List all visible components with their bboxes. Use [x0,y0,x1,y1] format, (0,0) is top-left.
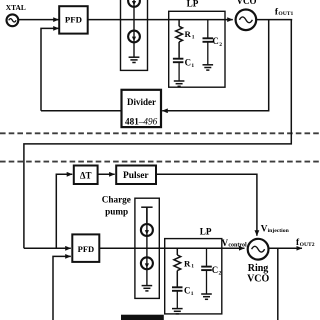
svg-text:2: 2 [219,42,222,48]
svg-text:pump: pump [105,207,128,217]
PFD U1 box [59,6,87,33]
resistor R1 (bottom) [174,248,181,286]
svg-text:ΔT: ΔT [80,170,92,180]
svg-text:1: 1 [191,291,194,297]
svg-text:Divider: Divider [127,97,156,107]
wire feedback tap to divider [162,20,269,111]
wire C2 to ground [207,42,209,65]
wire VCO to fOUT1 [256,19,292,21]
wire PFD output to VCO [88,19,233,21]
svg-text:injection: injection [268,228,290,234]
svg-text:481–496: 481–496 [125,117,158,127]
wire junction up to Delta-T [56,174,72,248]
oscillator VCO [236,9,257,30]
current source I2 [128,31,140,43]
ground (charge pump bottom) [142,286,153,291]
Delta-T box [74,166,98,185]
Divider box [122,90,162,127]
current source I4 [141,257,153,269]
wire C2 to ground (bottom) [206,270,208,294]
wire fOUT2 feedback down [277,248,279,320]
ground (charge pump top) [129,57,140,62]
svg-text:control: control [228,243,247,249]
wire C1 to ground [178,62,180,80]
LP filter box (top) [169,11,225,87]
wire through current sources [133,0,135,57]
svg-text:1: 1 [191,63,194,69]
svg-text:1: 1 [191,264,194,270]
ground (C2 bottom) [201,294,212,299]
PFD U2 box [72,234,99,262]
svg-text:XTAL: XTAL [6,3,26,12]
current source I3 [141,224,153,236]
oscillator XTAL [6,14,18,26]
dashed border top of bottom subfigure [0,161,320,163]
ground (C2 top) [203,65,214,70]
ground (C1 bottom) [172,309,183,314]
svg-text:R: R [185,29,192,39]
svg-text:LP: LP [187,0,199,8]
wire through current sources [146,207,148,285]
svg-text:C: C [185,58,191,68]
wire divider feedback up to PFD [41,28,59,110]
capacitor C1 (bottom) [172,287,183,291]
current source I1 (cropped circle) [128,0,140,7]
wire Delta-T to Pulser [98,173,115,175]
svg-text:VCO: VCO [237,0,257,6]
wire Ring VCO to fOUT2 [269,247,303,249]
LP filter box (bottom) [165,239,222,314]
svg-text:C: C [212,265,218,275]
svg-text:C: C [184,285,190,295]
svg-text:1: 1 [192,34,195,40]
wire C1 to ground (bottom) [176,291,178,308]
svg-text:2: 2 [219,270,222,276]
svg-text:C: C [212,36,218,46]
wire XTAL to PFD [19,19,59,21]
Pulser box [116,166,156,185]
svg-text:OUT2: OUT2 [300,242,315,248]
capacitor C1 (top) [173,59,184,63]
wire fOUT1 down to bottom stage [24,20,291,249]
charge pump box (top, cropped) [121,0,148,70]
capacitor C2 (bottom) [201,267,212,271]
svg-text:VCO: VCO [247,274,269,285]
oscillator Ring VCO [248,239,269,260]
svg-text:Pulser: Pulser [123,171,149,181]
svg-text:OUT1: OUT1 [278,11,293,17]
charge pump box (bottom) [135,198,159,298]
capacitor C2 branch wire (bottom) [206,248,208,266]
wire Pulser to injection [156,174,257,236]
svg-text:PFD: PFD [78,244,95,254]
capacitor C2 (top) [203,38,214,42]
supply T bar [141,207,152,223]
svg-text:Charge: Charge [102,195,131,205]
svg-text:R: R [184,258,191,268]
dashed border bottom of top subfigure [0,132,320,134]
resistor R1 (top) [176,20,183,58]
svg-text:Ring: Ring [248,263,269,274]
wire divider2 feedback to PFD2 [53,256,71,320]
wire into PFD2 reference input [24,247,71,249]
capacitor C2 branch wire (top) [207,20,209,38]
divider box (bottom, cropped top edge) [121,315,164,320]
wire PFD2 output to Ring VCO [99,247,244,249]
svg-text:PFD: PFD [65,14,82,24]
svg-text:LP: LP [200,227,212,237]
wire divider output [41,110,122,112]
ground (C1 top) [174,81,185,86]
